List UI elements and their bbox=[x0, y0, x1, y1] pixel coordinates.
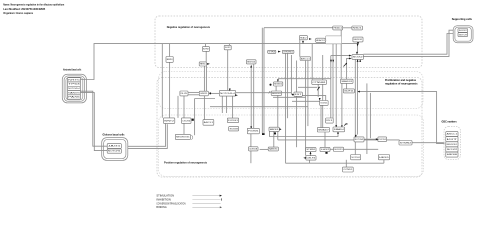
svg-text:GTF2I: GTF2I bbox=[269, 52, 276, 54]
svg-text:Horizontal basal cells: Horizontal basal cells bbox=[63, 68, 82, 72]
svg-text:SOX2: SOX2 bbox=[225, 47, 230, 49]
svg-text:NOTCH3: NOTCH3 bbox=[355, 139, 363, 141]
svg-text:NANOG: NANOG bbox=[68, 91, 80, 94]
svg-text:FOXM1: FOXM1 bbox=[248, 131, 258, 133]
svg-text:NEUROG2: NEUROG2 bbox=[354, 39, 363, 41]
svg-text:regulation of neurogenesis: regulation of neurogenesis bbox=[385, 82, 418, 85]
svg-text:NEUROD4: NEUROD4 bbox=[247, 62, 255, 64]
svg-text:STMN2: STMN2 bbox=[400, 142, 411, 144]
svg-text:CXCR4: CXCR4 bbox=[379, 139, 386, 141]
svg-text:SMAD4: SMAD4 bbox=[334, 128, 344, 131]
svg-text:HDAC1: HDAC1 bbox=[334, 27, 342, 30]
svg-text:GDF11: GDF11 bbox=[200, 93, 207, 95]
svg-text:ID1: ID1 bbox=[326, 120, 332, 122]
svg-text:INHIBITION: INHIBITION bbox=[156, 199, 171, 201]
svg-text:LHX2: LHX2 bbox=[321, 149, 329, 151]
svg-text:Positive regulation of neuroge: Positive regulation of neurogenesis bbox=[164, 161, 207, 165]
svg-text:CXCR4: CXCR4 bbox=[182, 120, 190, 122]
svg-text:NOTCH: NOTCH bbox=[459, 34, 468, 36]
svg-text:BINDING: BINDING bbox=[156, 207, 167, 209]
svg-text:SMAD1/5: SMAD1/5 bbox=[341, 80, 352, 83]
svg-text:NSD1: NSD1 bbox=[353, 28, 362, 30]
svg-text:WNT2: WNT2 bbox=[164, 120, 174, 122]
svg-text:HES5: HES5 bbox=[379, 157, 389, 159]
svg-text:JAG1: JAG1 bbox=[108, 145, 121, 148]
svg-text:NOTCH1-4: NOTCH1-4 bbox=[220, 93, 235, 95]
svg-text:STIMULATION: STIMULATION bbox=[156, 195, 174, 198]
svg-text:EZH2: EZH2 bbox=[203, 49, 209, 51]
svg-text:NGN1: NGN1 bbox=[274, 84, 282, 86]
svg-text:TP63: TP63 bbox=[68, 84, 79, 86]
svg-text:DLX5: DLX5 bbox=[181, 93, 188, 95]
svg-text:NANOS1: NANOS1 bbox=[269, 148, 278, 151]
svg-text:HDAC1/2: HDAC1/2 bbox=[316, 39, 325, 42]
svg-text:CCND1: CCND1 bbox=[343, 169, 352, 171]
svg-text:NOTCH1: NOTCH1 bbox=[108, 151, 121, 153]
svg-text:Supporting cells: Supporting cells bbox=[452, 17, 473, 21]
svg-text:FOXG1: FOXG1 bbox=[228, 120, 238, 122]
svg-text:HDAC2: HDAC2 bbox=[300, 36, 306, 39]
svg-text:STMN1: STMN1 bbox=[306, 149, 315, 151]
svg-text:SOX21: SOX21 bbox=[320, 103, 327, 105]
svg-text:NOTCH1: NOTCH1 bbox=[352, 157, 360, 159]
svg-text:KRT5: KRT5 bbox=[68, 80, 79, 82]
svg-text:HES6: HES6 bbox=[447, 154, 458, 156]
svg-text:GTF2IRD1: GTF2IRD1 bbox=[283, 52, 293, 54]
svg-text:NEUROG1: NEUROG1 bbox=[176, 137, 189, 139]
svg-text:SOX2: SOX2 bbox=[447, 149, 458, 151]
svg-text:CONVERSION/TRANSLOCATION: CONVERSION/TRANSLOCATION bbox=[156, 202, 185, 205]
svg-text:CELF4: CELF4 bbox=[307, 158, 316, 160]
svg-text:BMP4: BMP4 bbox=[167, 59, 173, 61]
svg-text:Negative regulation of neuroge: Negative regulation of neurogenesis bbox=[167, 25, 211, 29]
svg-text:SOX11: SOX11 bbox=[334, 149, 342, 151]
svg-text:HES1: HES1 bbox=[270, 129, 279, 131]
svg-text:Name: Neurogenesis regulation: Name: Neurogenesis regulation in the olf… bbox=[3, 2, 64, 6]
svg-text:NOTCH1-4: NOTCH1-4 bbox=[68, 88, 79, 90]
svg-text:Last Modified: 202407511030495: Last Modified: 20240751103049585 bbox=[3, 7, 45, 11]
svg-text:NEUROD1: NEUROD1 bbox=[447, 144, 458, 146]
svg-text:PAX6: PAX6 bbox=[68, 96, 79, 99]
svg-text:GBC markers: GBC markers bbox=[442, 120, 458, 124]
svg-text:ASCL1: ASCL1 bbox=[447, 133, 458, 136]
svg-text:SMAD7: SMAD7 bbox=[318, 128, 329, 131]
svg-text:SOX2: SOX2 bbox=[353, 57, 364, 59]
svg-text:ASCL1: ASCL1 bbox=[204, 121, 213, 124]
svg-text:Globose basal cells: Globose basal cells bbox=[103, 132, 126, 136]
svg-text:HES1: HES1 bbox=[200, 64, 206, 66]
svg-text:CDKN1B: CDKN1B bbox=[249, 148, 258, 150]
svg-text:SOX8: SOX8 bbox=[230, 128, 238, 130]
svg-text:CTNNB1: CTNNB1 bbox=[313, 82, 326, 84]
svg-text:Organism: Homo sapiens: Organism: Homo sapiens bbox=[3, 11, 33, 15]
svg-text:GDF11: GDF11 bbox=[344, 91, 354, 93]
svg-text:SOX2: SOX2 bbox=[459, 30, 467, 32]
svg-text:ASCL1: ASCL1 bbox=[301, 57, 310, 60]
